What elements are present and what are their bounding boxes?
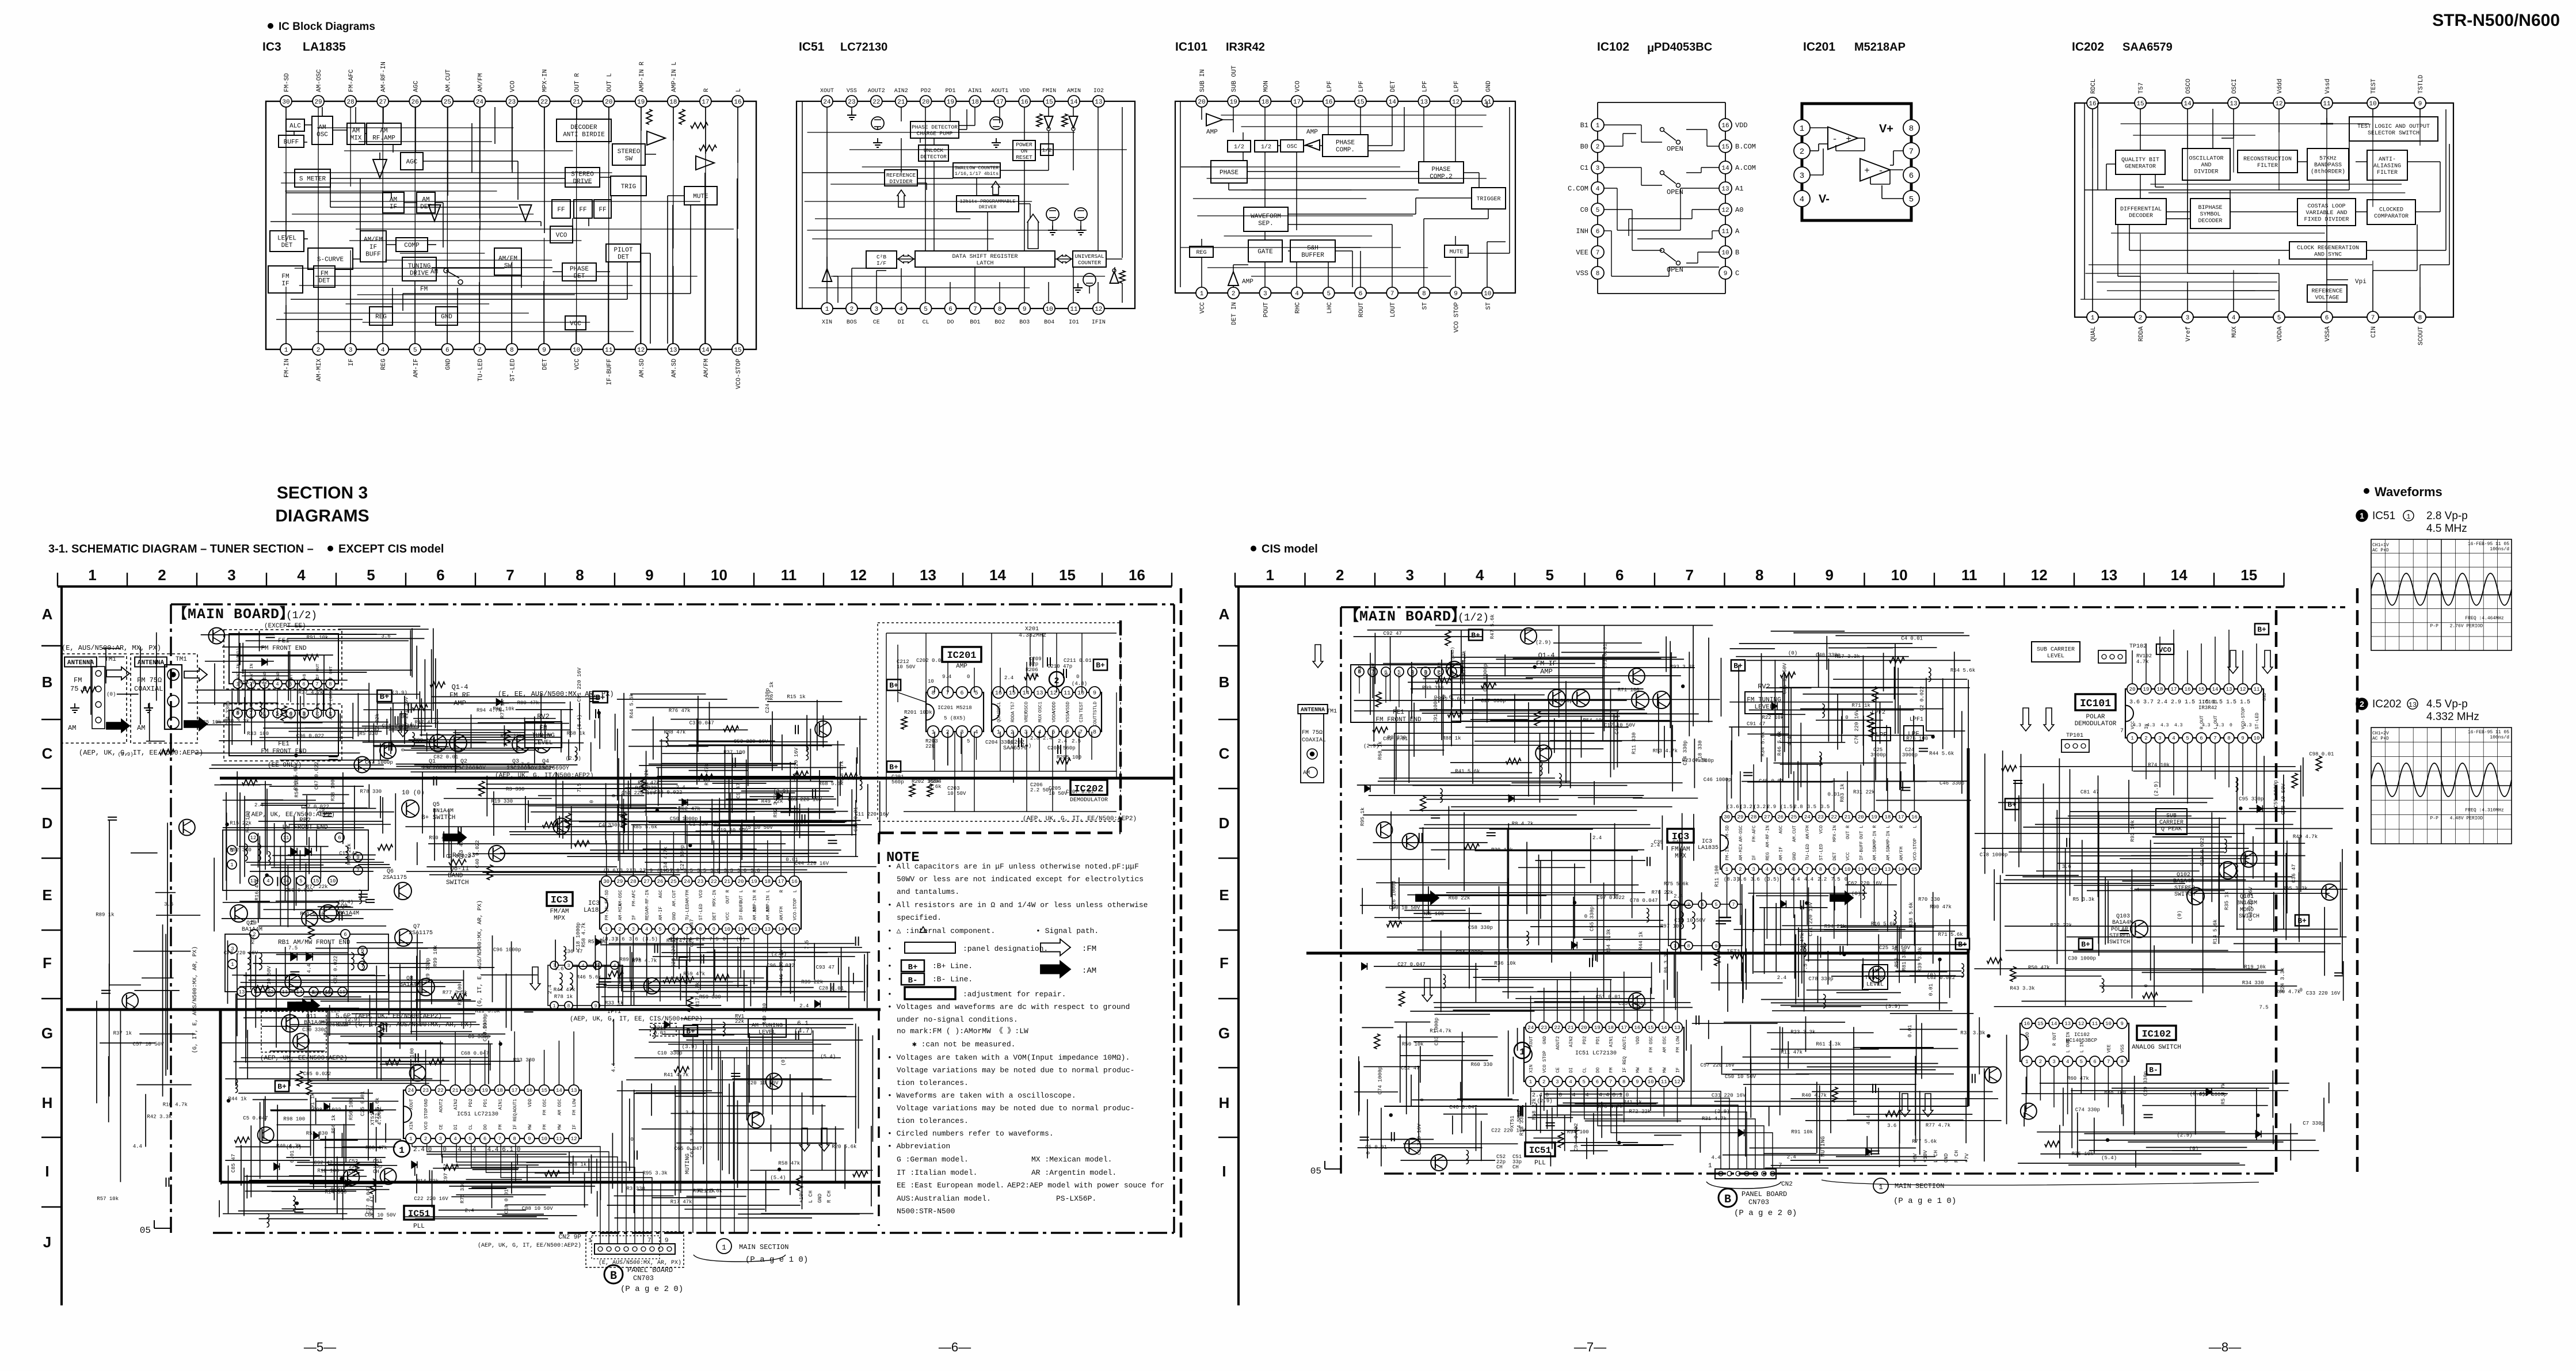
svg-text:CIS model: CIS model	[1262, 543, 1318, 555]
IC101 pin 17	[1291, 96, 1303, 107]
wire bundle	[188, 626, 436, 768]
svg-text:19: 19	[947, 99, 954, 106]
svg-text:13: 13	[1420, 99, 1428, 106]
svg-text:10: 10	[1891, 566, 1908, 584]
svg-text:TRIGGER: TRIGGER	[1476, 196, 1500, 203]
FM signal arrow	[398, 714, 408, 737]
svg-text:R8 4.7k: R8 4.7k	[1512, 821, 1534, 827]
svg-text:10 50V: 10 50V	[1049, 791, 1068, 797]
svg-text:23: 23	[1817, 814, 1824, 820]
wire	[1686, 129, 1707, 130]
wire	[318, 287, 319, 344]
svg-text:2.76V PERIOD: 2.76V PERIOD	[2450, 623, 2483, 629]
svg-text:RF.AMP: RF.AMP	[372, 135, 395, 142]
svg-text:(5.4): (5.4)	[2101, 1155, 2117, 1161]
resistor R624	[81, 687, 96, 693]
RB1 pin 14	[295, 987, 304, 996]
svg-text:R72 5.6k: R72 5.6k	[375, 1098, 380, 1122]
IC101 block REG	[1190, 246, 1213, 257]
capacitor C881	[1872, 1084, 1873, 1093]
svg-text:1/2: 1/2	[1234, 144, 1244, 151]
IC3 amp A5	[696, 156, 714, 170]
svg-text:AOUT2: AOUT2	[439, 1099, 444, 1113]
svg-text:TSTLD: TSTLD	[2418, 75, 2425, 94]
grid tick	[1234, 573, 1236, 587]
svg-text:1/2: 1/2	[1042, 147, 1051, 153]
svg-text:12: 12	[751, 927, 757, 932]
IC102 pin 16	[1719, 119, 1732, 131]
wire	[1000, 668, 1001, 692]
IC3 pin 5	[409, 344, 421, 355]
svg-text:AM: AM	[1303, 770, 1310, 776]
wire	[1042, 633, 1043, 668]
svg-text:0: 0	[517, 1147, 521, 1153]
capacitor C358	[733, 776, 742, 777]
svg-text:R71 5.6k: R71 5.6k	[1938, 932, 1963, 938]
svg-text:14: 14	[1070, 99, 1078, 106]
svg-text:AIN2: AIN2	[1569, 1036, 1574, 1047]
IC3 block VCC	[565, 316, 586, 330]
svg-text:R CH: R CH	[826, 1190, 832, 1203]
wire	[1691, 210, 1693, 219]
coil L524	[2236, 778, 2238, 791]
svg-text:C88 10 50V: C88 10 50V	[522, 1206, 554, 1212]
svg-text:AM: AM	[430, 269, 438, 276]
svg-text:LPF1: LPF1	[1910, 717, 1923, 723]
transistor Q390	[343, 1170, 359, 1186]
svg-text:VCC: VCC	[570, 321, 581, 327]
svg-text:8: 8	[2227, 736, 2230, 741]
IC3 block PILOT DET	[606, 244, 641, 262]
wire	[393, 144, 394, 153]
IC51 extra mesh	[805, 132, 1127, 288]
wire	[974, 668, 975, 692]
svg-text:27: 27	[1764, 814, 1770, 820]
wire	[2140, 190, 2141, 199]
svg-text:IR3R42: IR3R42	[2198, 705, 2217, 711]
svg-text:IC3: IC3	[262, 40, 281, 54]
svg-text:IC102: IC102	[1597, 40, 1629, 54]
svg-text:C94 0.022: C94 0.022	[1573, 1123, 1579, 1151]
wire	[2140, 109, 2141, 150]
svg-text:C51 220 16V: C51 220 16V	[622, 790, 656, 796]
svg-text:FM-IN: FM-IN	[1725, 847, 1731, 860]
svg-text:A0: A0	[1735, 206, 1743, 214]
svg-text:19: 19	[637, 99, 645, 106]
IC51 FET Q-d	[1074, 208, 1087, 220]
svg-text:C78 330p: C78 330p	[1808, 976, 1833, 982]
svg-text:5: 5	[2186, 736, 2189, 741]
IC3 block DECODER ANTI BIRDIE	[557, 119, 611, 142]
IFT1 transformer box	[548, 965, 623, 1006]
resistor R648	[1375, 692, 1381, 707]
svg-text:BA1A4M: BA1A4M	[304, 1020, 325, 1026]
diode D315	[411, 1161, 417, 1168]
grid tick	[1218, 788, 1239, 789]
svg-text:10: 10	[2369, 101, 2376, 108]
IC202 pin 12	[2273, 97, 2285, 109]
wire	[1455, 236, 1456, 245]
IC202 pin 16	[2087, 97, 2098, 109]
resistor R421	[479, 781, 485, 796]
capacitor C301	[329, 756, 338, 757]
svg-text:15: 15	[541, 1088, 547, 1094]
resistor R430	[621, 813, 627, 828]
svg-text:C35 10 50V: C35 10 50V	[1782, 662, 1788, 694]
svg-text:13: 13	[2409, 701, 2417, 709]
svg-text:R35 10k: R35 10k	[2072, 1151, 2094, 1157]
wire	[511, 275, 512, 344]
svg-text:C10 0.022: C10 0.022	[2200, 837, 2205, 866]
wire	[1404, 107, 1405, 151]
svg-text:DI: DI	[898, 319, 905, 326]
wire	[2155, 186, 2164, 188]
transistor Q199	[302, 911, 318, 927]
svg-text:FM FRONT END: FM FRONT END	[261, 645, 307, 652]
wire	[1024, 107, 1025, 140]
IC3 pin 26	[409, 96, 421, 107]
IC102 pin 13	[1719, 182, 1732, 195]
svg-text:Vpi: Vpi	[2355, 279, 2367, 285]
svg-text:C31 220 16V: C31 220 16V	[1712, 1092, 1746, 1098]
wire	[379, 153, 380, 159]
capacitor C392	[338, 911, 340, 920]
svg-text:R88 1k: R88 1k	[1442, 736, 1461, 741]
svg-text:DI: DI	[1569, 1067, 1574, 1073]
svg-text:TEST: TEST	[1079, 702, 1084, 713]
FM signal arrow	[819, 1128, 829, 1151]
svg-text:(3.9): (3.9)	[392, 690, 407, 696]
svg-text:4: 4	[472, 1147, 477, 1153]
resistor R468	[254, 985, 269, 991]
grid tick	[41, 858, 62, 859]
svg-text:VT: VT	[1398, 672, 1403, 678]
RB2 pin 9	[353, 852, 363, 862]
svg-text:(P a g e 1 0): (P a g e 1 0)	[1893, 1197, 1956, 1206]
wire	[1080, 221, 1081, 226]
svg-text:H: H	[1219, 1094, 1230, 1111]
wire	[668, 195, 684, 196]
capacitor C883	[1870, 1151, 1880, 1152]
wire	[2278, 273, 2280, 311]
svg-text:R34 5.6k: R34 5.6k	[1760, 732, 1766, 756]
svg-text:30: 30	[282, 99, 289, 106]
svg-text:16: 16	[791, 879, 798, 885]
svg-text:1: 1	[605, 927, 608, 932]
IC51 pin 13	[1093, 96, 1104, 107]
RB2 pin 1	[227, 860, 237, 869]
wire	[1509, 107, 1510, 253]
svg-text:C²B: C²B	[877, 254, 886, 260]
svg-text:CE: CE	[1556, 1067, 1561, 1073]
IC3 block COMP	[396, 238, 428, 252]
svg-text:14: 14	[1389, 99, 1397, 106]
svg-text:REG: REG	[645, 912, 650, 920]
IC3 resistor network	[646, 109, 652, 124]
wire	[2097, 103, 2098, 190]
svg-text:PD1: PD1	[483, 1099, 489, 1107]
CIS IC101 chip	[2125, 689, 2263, 738]
svg-text:• All resistors are in Ω and 1: • All resistors are in Ω and 1/4W or les…	[887, 901, 1148, 909]
svg-text:16: 16	[995, 691, 1002, 697]
svg-text:05: 05	[140, 1225, 151, 1236]
svg-text:R19 10k: R19 10k	[2244, 965, 2266, 970]
diode D214	[815, 1000, 821, 1007]
svg-text:6: 6	[1596, 228, 1600, 235]
svg-text:7: 7	[2371, 315, 2375, 322]
svg-text:(5.4): (5.4)	[770, 1175, 786, 1181]
svg-text:0: 0	[401, 748, 406, 751]
svg-text:R91 10k: R91 10k	[1791, 1129, 1813, 1135]
RB2 pin 10	[328, 876, 337, 885]
svg-text:CH: CH	[1512, 1164, 1519, 1170]
FM signal arrow	[2228, 650, 2238, 673]
svg-text:PD2: PD2	[921, 88, 931, 94]
FE1 pin 6	[299, 679, 308, 688]
svg-text:5: 5	[924, 306, 928, 313]
svg-text:VCO: VCO	[509, 81, 516, 92]
svg-text:R94 22k: R94 22k	[1824, 924, 1846, 930]
svg-text:C67 10 50V: C67 10 50V	[689, 1126, 695, 1157]
diode D344	[1365, 785, 1370, 792]
capacitor C355	[795, 725, 796, 734]
grid tick	[1934, 573, 1935, 587]
svg-text:(2.9): (2.9)	[1535, 640, 1551, 646]
svg-text:C19 330p: C19 330p	[2143, 1071, 2149, 1096]
svg-text:C91 1000p: C91 1000p	[1433, 695, 1439, 723]
IC202 ground sym	[2326, 118, 2327, 124]
svg-text:REG: REG	[375, 314, 387, 321]
resistor R429	[574, 841, 589, 847]
svg-text:2.4: 2.4	[2157, 699, 2167, 706]
svg-text:C83 1000p: C83 1000p	[1434, 1018, 1439, 1046]
svg-text:VCO STOP: VCO STOP	[1542, 1050, 1548, 1073]
svg-text:2: 2	[1596, 144, 1600, 151]
svg-text:LPF: LPF	[1358, 81, 1365, 92]
svg-text:VDD: VDD	[2025, 1032, 2030, 1041]
IC3 block AM/FM IF BUFF	[360, 231, 386, 262]
svg-text:7: 7	[973, 306, 977, 313]
svg-text:R57 10k: R57 10k	[97, 1196, 119, 1202]
transistor CIS Q1	[1548, 690, 1565, 707]
IC101 pin 13	[1418, 96, 1430, 107]
svg-text:19: 19	[1594, 1025, 1601, 1031]
svg-text:+: +	[1864, 166, 1870, 176]
svg-text:E: E	[42, 886, 52, 904]
wire	[392, 288, 393, 316]
IFT1 pin 8	[565, 1001, 573, 1010]
wire	[954, 732, 955, 812]
CIS AM TUNING LEVEL	[1862, 965, 1888, 989]
wire	[1116, 692, 1117, 777]
svg-text:7: 7	[315, 681, 318, 687]
CIS FE1 box	[1351, 665, 1461, 722]
svg-text:R47 5.6k: R47 5.6k	[1490, 614, 1496, 639]
svg-text:COMPARATOR: COMPARATOR	[2374, 214, 2409, 220]
svg-text:GND: GND	[672, 912, 677, 920]
svg-text:+: +	[1846, 134, 1851, 144]
wire	[1026, 662, 1027, 692]
transistor Q710	[2021, 1103, 2037, 1119]
svg-text:C82 0.022: C82 0.022	[333, 955, 339, 984]
svg-text:• Signal path.: • Signal path.	[1036, 927, 1099, 935]
RB1 pin 13	[237, 987, 246, 996]
svg-text:+10V: +10V	[1923, 1150, 1929, 1163]
wire	[1423, 107, 1424, 162]
svg-text:(4.8): (4.8)	[1072, 681, 1087, 687]
junction node	[778, 1168, 781, 1171]
resistor R650	[1534, 711, 1540, 726]
svg-text:C: C	[1735, 269, 1739, 277]
IC102 frame wires	[1597, 102, 1598, 119]
svg-text:BO4: BO4	[1044, 319, 1054, 326]
svg-text:5: 5	[1909, 195, 1914, 204]
svg-text:(2.9): (2.9)	[345, 1017, 360, 1023]
svg-text:11: 11	[1858, 867, 1864, 873]
wire	[1320, 145, 1323, 146]
IC51 bus arrow left	[898, 255, 914, 263]
transistor Q529	[1376, 822, 1392, 838]
capacitor C739	[1647, 857, 1648, 866]
svg-text:FM-AFC: FM-AFC	[348, 69, 355, 92]
svg-text:FILTER: FILTER	[2377, 170, 2398, 176]
IC101 amp bottom	[1228, 272, 1239, 285]
svg-text:2.4: 2.4	[2130, 888, 2139, 893]
wire	[2417, 224, 2418, 271]
RB2 pin 4	[264, 876, 273, 885]
capacitor C818	[2066, 838, 2067, 847]
note area dash top	[879, 832, 1121, 835]
resistor R701	[1868, 713, 1873, 728]
wire	[1055, 258, 1073, 260]
wire	[1114, 267, 1115, 271]
svg-text:SECTION 3: SECTION 3	[277, 483, 368, 502]
svg-text:12: 12	[2078, 1021, 2085, 1027]
svg-text:12: 12	[1095, 306, 1102, 313]
wire	[391, 193, 392, 199]
svg-text:C57 10 50V: C57 10 50V	[133, 1042, 165, 1048]
wire	[285, 173, 287, 242]
grid tick	[405, 573, 406, 587]
svg-text:IC51: IC51	[799, 40, 825, 54]
panel connector left	[595, 1244, 675, 1254]
svg-text:LC72130: LC72130	[840, 41, 887, 54]
svg-text:C46 330p: C46 330p	[1939, 780, 1964, 786]
svg-text:AM-MIX: AM-MIX	[316, 359, 323, 382]
svg-text:T57: T57	[2138, 82, 2145, 94]
resistor R906	[2045, 1141, 2060, 1147]
wire	[1233, 265, 1234, 272]
svg-text:MX :Mexican model.: MX :Mexican model.	[1031, 1155, 1112, 1164]
svg-text:VSS: VSS	[2120, 1044, 2125, 1053]
IC3 block STEREO SW	[612, 144, 645, 165]
svg-text:18: 18	[764, 879, 771, 885]
svg-text:17: 17	[1898, 814, 1904, 820]
junction node	[2239, 806, 2242, 810]
svg-text:R35 1k: R35 1k	[2224, 892, 2230, 910]
CIS IC3 pin comb down	[1727, 874, 1915, 946]
coil L280	[266, 1213, 269, 1227]
svg-text:OUT R: OUT R	[574, 73, 581, 92]
left board dash-dot border left	[170, 604, 172, 1233]
junction node	[498, 1042, 502, 1046]
wire	[640, 262, 641, 344]
wire	[1243, 132, 1244, 140]
svg-text:C1 220 16V: C1 220 16V	[1416, 1124, 1422, 1155]
wire	[353, 258, 360, 260]
svg-text:ANTENNA: ANTENNA	[138, 660, 165, 667]
svg-text:17: 17	[702, 99, 709, 106]
svg-text:10: 10	[573, 347, 580, 354]
svg-text:XIN: XIN	[822, 319, 832, 326]
svg-text:21: 21	[1845, 814, 1851, 820]
CIS FE pin comb	[1359, 676, 1452, 707]
wire	[1604, 146, 1623, 147]
IC101 pin 1	[1196, 287, 1207, 299]
transistor Q452	[1629, 668, 1645, 684]
svg-text:DET IN: DET IN	[1231, 302, 1238, 325]
svg-text:R13 330: R13 330	[1519, 1114, 1525, 1136]
IC202 block REFERENCE	[2307, 285, 2347, 302]
svg-text:FM-IN: FM-IN	[284, 359, 291, 378]
svg-text:2: 2	[1800, 147, 1804, 157]
wire	[627, 262, 628, 299]
svg-text:13: 13	[2101, 566, 2117, 584]
wire	[1641, 185, 1662, 186]
wire	[925, 267, 926, 303]
svg-text:IF REQ: IF REQ	[1622, 1056, 1628, 1073]
resistor R697	[1869, 722, 1874, 737]
svg-text:28: 28	[1751, 814, 1757, 820]
wire	[1810, 174, 1823, 176]
resistor R436	[543, 822, 558, 828]
svg-text:C30 1000p: C30 1000p	[2068, 956, 2096, 962]
wire	[1597, 237, 1598, 246]
svg-text:C27 0.047: C27 0.047	[1397, 962, 1426, 968]
svg-text:AOUT2: AOUT2	[868, 88, 885, 94]
svg-text:SAA6579: SAA6579	[2122, 41, 2173, 54]
wire	[1243, 152, 1244, 161]
wire	[947, 732, 948, 766]
coil L511	[2224, 839, 2227, 853]
svg-text:FM: FM	[420, 286, 428, 293]
waveform scope IC2	[2371, 728, 2512, 844]
svg-text:14: 14	[2171, 566, 2188, 584]
svg-text:C45 0.01: C45 0.01	[1759, 779, 1784, 784]
wire	[1052, 221, 1053, 226]
svg-text:12: 12	[2275, 101, 2282, 108]
wire	[1392, 224, 1393, 287]
svg-text:4: 4	[266, 878, 269, 884]
svg-text:C9 47: C9 47	[736, 783, 741, 798]
capacitor C823	[2013, 780, 2022, 781]
svg-text:11: 11	[556, 1136, 562, 1142]
svg-text:+B: +B	[1385, 672, 1389, 678]
IC102 pin 8	[1591, 266, 1604, 279]
svg-text:C204 330p: C204 330p	[985, 740, 1013, 745]
wire	[966, 109, 967, 130]
svg-text:IFIN: IFIN	[1092, 319, 1106, 326]
svg-text:C3 0.047: C3 0.047	[689, 721, 714, 726]
IC51 pin 4	[895, 303, 907, 314]
junction node	[2256, 1113, 2259, 1117]
AM/MW FRONT END box	[225, 934, 388, 992]
svg-text:COAXIAL: COAXIAL	[134, 685, 163, 693]
transistor Q7	[395, 929, 412, 946]
svg-text:R: R	[703, 88, 710, 92]
svg-text:C57 0.022: C57 0.022	[301, 804, 329, 810]
wire	[1810, 150, 1819, 151]
